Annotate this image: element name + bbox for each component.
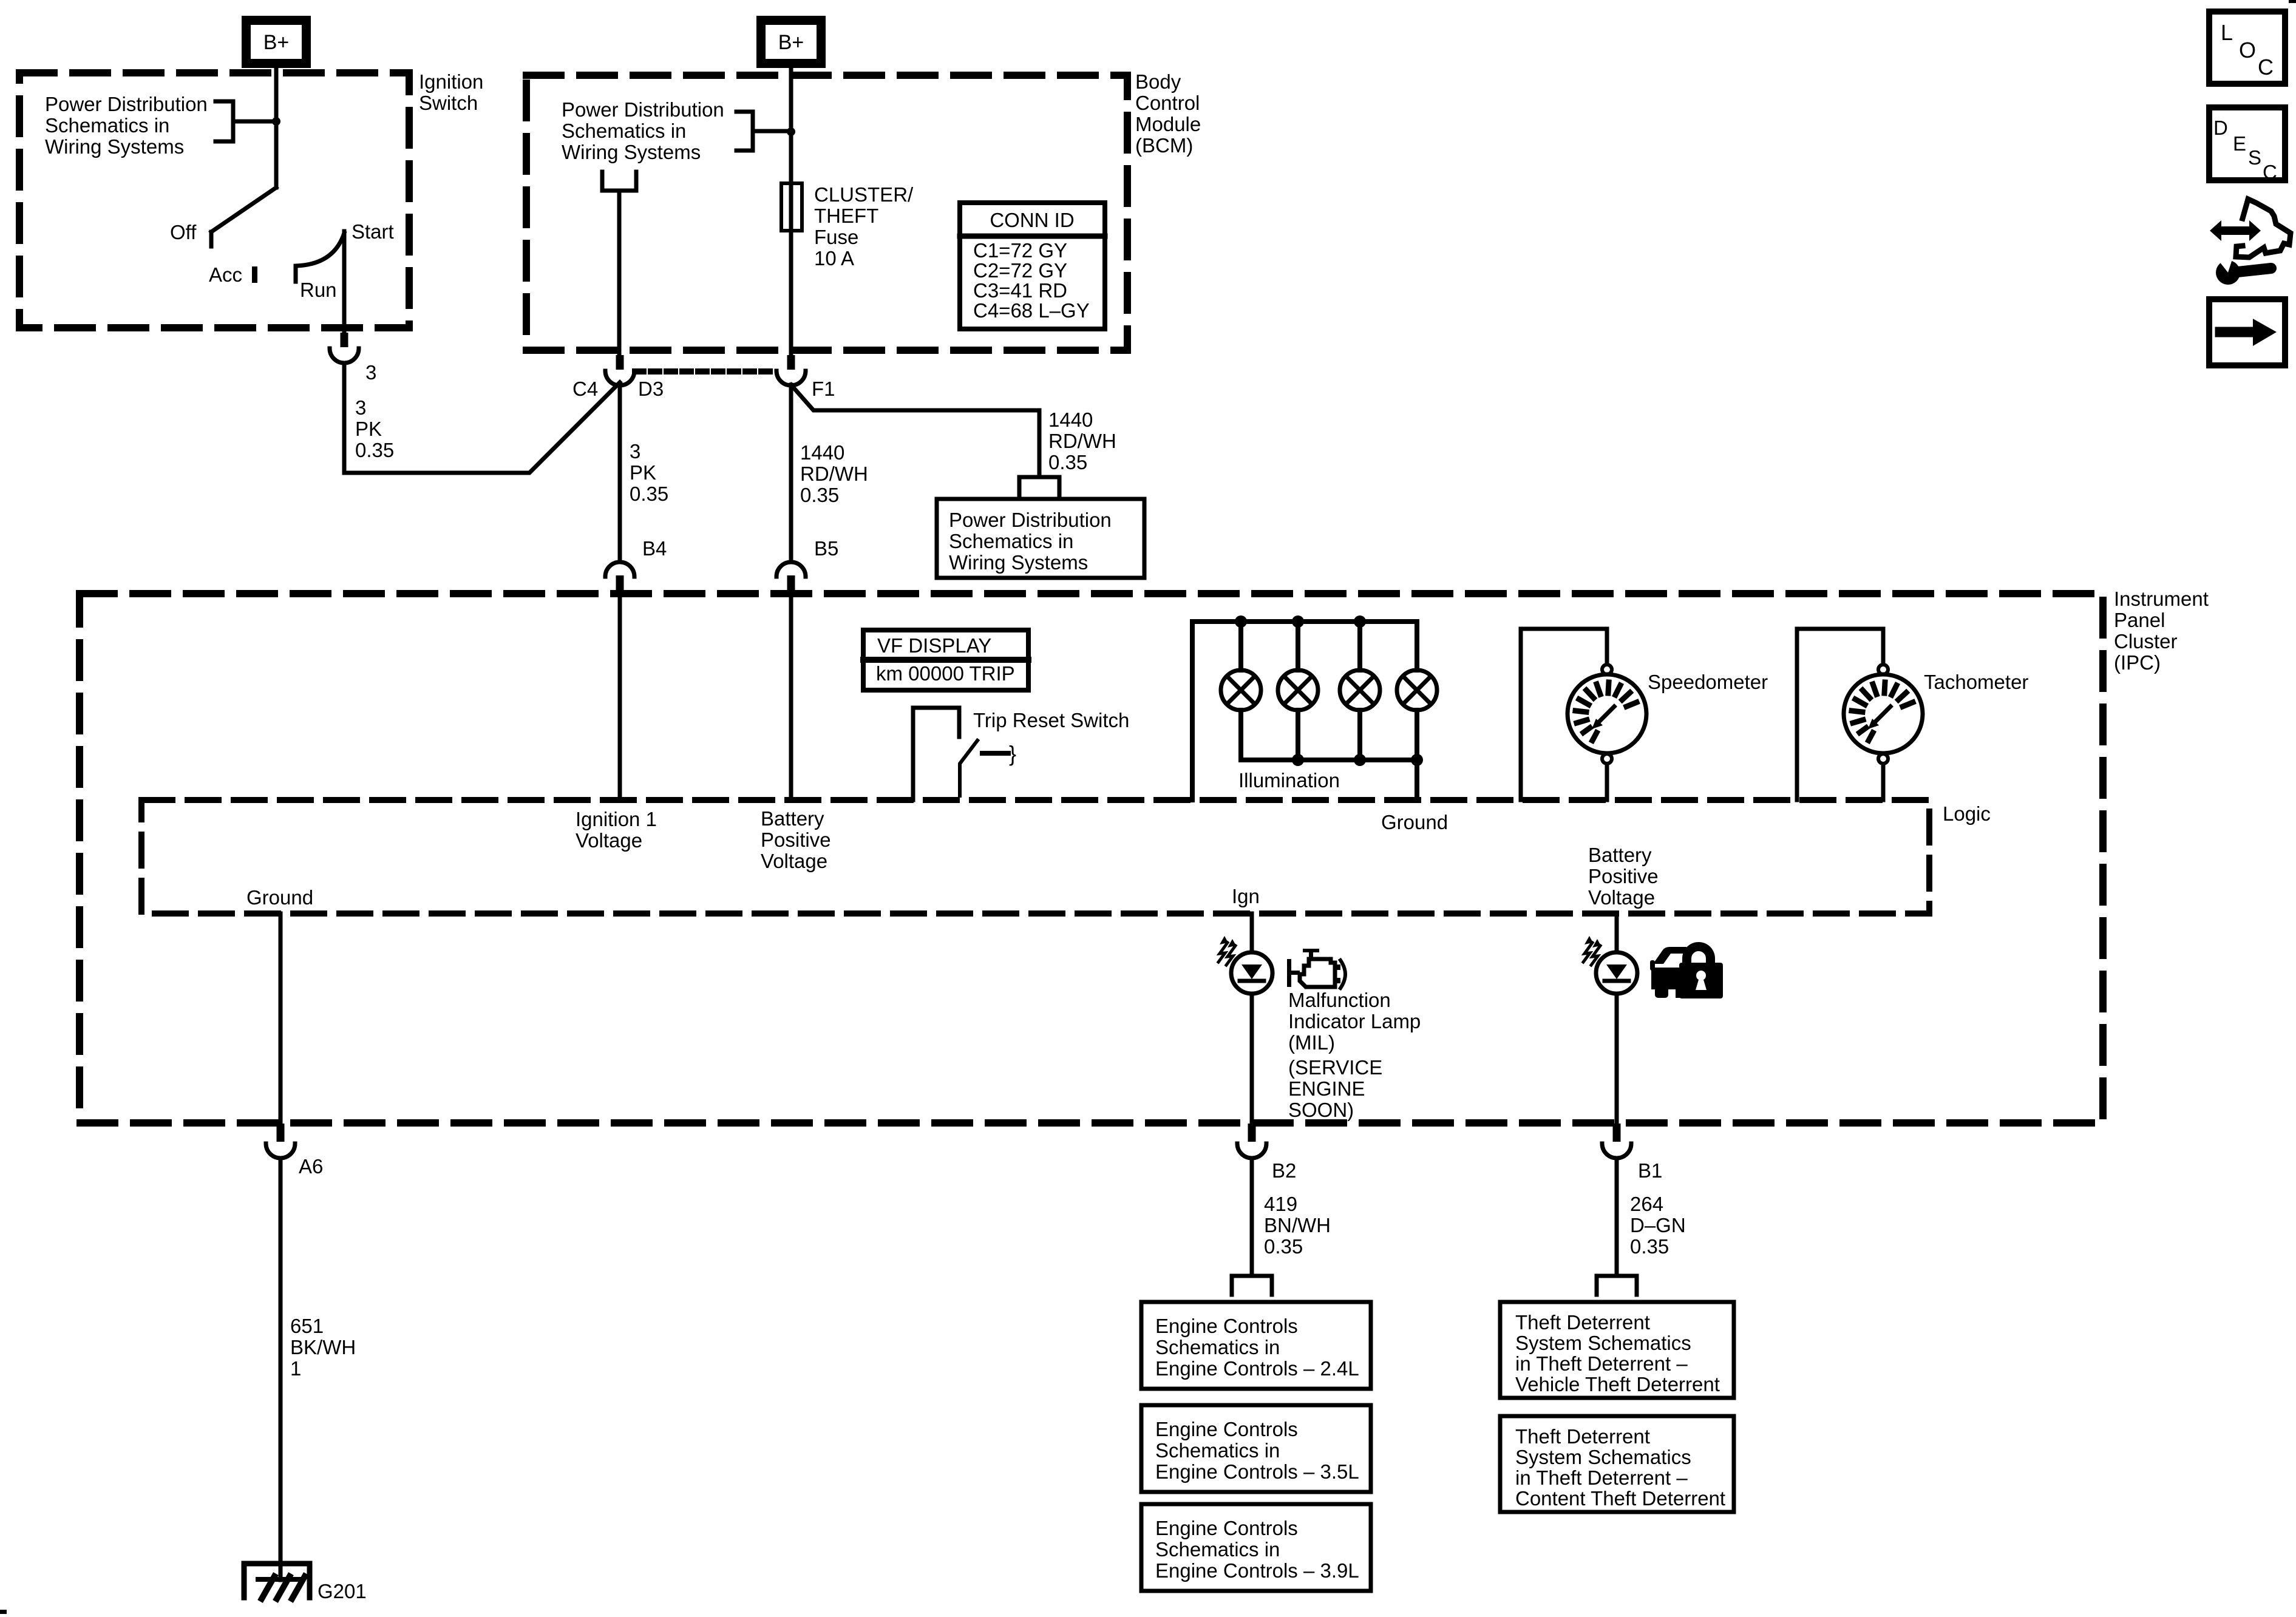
- IPC logic module dashed box: [141, 800, 1929, 914]
- wire B1 to theft deterrent: [1615, 1158, 1619, 1273]
- wire D3 down to B4: [618, 385, 622, 560]
- power symbol B+ (BCM feed): [761, 21, 821, 64]
- svg-text:VF DISPLAY: VF DISPLAY: [877, 634, 991, 657]
- wire B2 to engine controls: [1250, 1158, 1254, 1273]
- svg-text:km 00000 TRIP: km 00000 TRIP: [876, 662, 1015, 685]
- LED emission arrows: [1583, 936, 1601, 965]
- wire BCM power dist to D3: [617, 193, 622, 358]
- off-page cup bracket above power distribution box: [1019, 477, 1059, 496]
- connector pin 3 at ignition switch: [330, 333, 359, 363]
- body control module dashed box: [526, 75, 1127, 350]
- svg-text:Ign: Ign: [1232, 885, 1260, 907]
- box theft deterrent ref (Vehicle): [1500, 1302, 1734, 1398]
- wire illumination ground rail: [1241, 760, 1417, 800]
- node junction top rail: [1292, 615, 1304, 628]
- icon vehicle adjust (arrow + car + wrench): [2210, 199, 2291, 285]
- connector B2 at IPC: [1237, 1124, 1266, 1158]
- fuse CLUSTER/THEFT 10A: [781, 183, 802, 231]
- svg-text:C3=41 RD: C3=41 RD: [973, 279, 1067, 302]
- node junction ground rail: [1354, 754, 1366, 766]
- svg-text:Off: Off: [170, 221, 197, 243]
- lamp L1 (illumination bulb): [1221, 670, 1261, 710]
- wire bracket to BCM B+ wire: [753, 129, 787, 134]
- lamp L4 (illumination bulb): [1397, 670, 1437, 710]
- svg-text:Acc: Acc: [209, 263, 242, 286]
- box theft deterrent ref (Content): [1500, 1416, 1734, 1512]
- svg-text:L: L: [2221, 20, 2233, 45]
- wire F1 down to B5: [789, 385, 793, 560]
- svg-text:Run: Run: [300, 279, 337, 301]
- connector A6 at IPC: [266, 1124, 295, 1158]
- icon arrow box: [2209, 299, 2285, 365]
- speedometer gauge: [1521, 629, 1646, 800]
- svg-text:IgnitionSwitch: IgnitionSwitch: [419, 70, 483, 114]
- svg-text:Start: Start: [352, 220, 394, 243]
- svg-text:C4: C4: [572, 378, 598, 400]
- svg-text:3: 3: [365, 361, 376, 384]
- svg-text:D3: D3: [638, 378, 664, 400]
- wire B+ through fuse to F1: [789, 68, 793, 355]
- connector C4/D3 at BCM: [605, 355, 634, 385]
- svg-text:C: C: [2263, 161, 2277, 183]
- svg-text:CONN ID: CONN ID: [990, 209, 1074, 231]
- svg-text:F1: F1: [812, 378, 835, 400]
- tachometer gauge: [1797, 629, 1923, 800]
- svg-text:Trip Reset Switch: Trip Reset Switch: [973, 709, 1129, 731]
- connector B1 at IPC: [1602, 1124, 1631, 1158]
- svg-text:B1: B1: [1638, 1159, 1662, 1182]
- dotted connector face line D3-F1: [635, 368, 776, 375]
- power symbol B+ (ignition feed): [246, 21, 307, 64]
- wire B5 to logic module: [789, 594, 793, 800]
- svg-text:B+: B+: [778, 31, 804, 54]
- switch Run contact curve: [296, 233, 344, 282]
- wire F1 branch to power distribution: [791, 385, 1039, 475]
- svg-text:B2: B2: [1272, 1159, 1296, 1182]
- svg-text:B4: B4: [642, 537, 667, 560]
- box power distribution schematics ref: [937, 499, 1144, 578]
- node junction top rail: [1235, 615, 1247, 628]
- car with padlock icon (theft deterrent): [1650, 942, 1723, 998]
- VF DISPLAY readout box: [863, 630, 1028, 690]
- node junction on B+ stem: [272, 117, 280, 126]
- wire lamp 4 stem: [1415, 622, 1419, 670]
- wire bracket to B+ stem: [233, 120, 273, 124]
- box engine controls ref (2.4L): [1141, 1302, 1371, 1389]
- svg-text:B5: B5: [814, 537, 838, 560]
- svg-text:E: E: [2233, 132, 2246, 155]
- Acc contact tick: [252, 266, 257, 283]
- wire Start/Run to connector: [342, 231, 347, 337]
- wire B4 to logic module: [618, 594, 622, 800]
- instrument panel cluster dashed box: [80, 594, 2103, 1123]
- node junction ground rail: [1292, 754, 1304, 766]
- off-page cup bracket above theft deterrent: [1597, 1276, 1637, 1295]
- svg-text:C: C: [2258, 55, 2274, 80]
- svg-text:S: S: [2248, 146, 2261, 169]
- off-page bracket to power distribution: [216, 101, 233, 141]
- svg-text:Tachometer: Tachometer: [1924, 671, 2028, 693]
- wire lamp 2 stem: [1296, 622, 1300, 670]
- wire Ign to B2 (through MIL lamp): [1250, 914, 1254, 1124]
- off-page cup bracket to D3 feed: [602, 172, 636, 191]
- svg-text:Ground: Ground: [1381, 811, 1448, 833]
- svg-text:G201: G201: [318, 1580, 367, 1602]
- svg-text:Illumination: Illumination: [1238, 769, 1340, 792]
- svg-text:}: }: [1009, 741, 1016, 766]
- lamp MIL LED: [1231, 952, 1272, 994]
- wire Battery Positive Voltage to B1 (through theft lamp): [1615, 914, 1619, 1124]
- wire Ground to A6: [279, 914, 283, 1124]
- off-page bracket in BCM: [736, 112, 753, 151]
- svg-text:C2=72 GY: C2=72 GY: [973, 259, 1067, 282]
- box engine controls ref (3.5L): [1141, 1405, 1371, 1492]
- wire lamp 1 stem: [1238, 622, 1243, 670]
- wire B+ stem into ignition switch: [274, 68, 279, 188]
- connector B4 at IPC: [605, 562, 634, 594]
- svg-text:C1=72 GY: C1=72 GY: [973, 239, 1067, 262]
- LED emission arrows: [1218, 936, 1236, 965]
- ignition switch dashed box: [19, 73, 409, 328]
- lamp L3 (illumination bulb): [1340, 670, 1380, 710]
- CONN ID table: [960, 203, 1105, 329]
- svg-text:Ground: Ground: [246, 886, 313, 909]
- svg-text:Logic: Logic: [1943, 802, 1991, 825]
- corner tick marks: [2289, 0, 2296, 3]
- box engine controls ref (3.9L): [1141, 1504, 1371, 1591]
- svg-text:BatteryPositiveVoltage: BatteryPositiveVoltage: [1588, 844, 1659, 909]
- icon LOC box: [2209, 12, 2285, 84]
- wire illumination feed rail: [1192, 622, 1417, 800]
- node junction top rail: [1354, 615, 1366, 628]
- switch pole Off position: [211, 188, 276, 246]
- connector F1 at BCM: [776, 355, 806, 385]
- wire run feed to C4/D3: [344, 363, 620, 473]
- svg-text:BatteryPositiveVoltage: BatteryPositiveVoltage: [761, 807, 831, 872]
- svg-text:A6: A6: [299, 1155, 323, 1178]
- ground G201 symbol: [244, 1564, 310, 1599]
- wire lamp 3 stem: [1357, 622, 1362, 670]
- svg-text:O: O: [2239, 38, 2256, 63]
- connector B5 at IPC: [776, 562, 806, 594]
- node junction on BCM B+ wire: [787, 127, 795, 136]
- node junction ground rail: [1411, 754, 1423, 766]
- engine icon (check engine): [1287, 949, 1345, 988]
- svg-text:C4=68 L–GY: C4=68 L–GY: [973, 299, 1090, 322]
- svg-text:Speedometer: Speedometer: [1648, 671, 1768, 693]
- trip reset switch: [913, 708, 959, 800]
- lamp theft deterrent LED: [1596, 952, 1637, 994]
- svg-text:D: D: [2213, 117, 2228, 139]
- wire A6 to G201: [279, 1158, 283, 1580]
- off-page cup bracket above engine controls: [1232, 1276, 1272, 1295]
- lamp L2 (illumination bulb): [1278, 670, 1318, 710]
- icon DESC box: [2209, 107, 2285, 183]
- svg-text:B+: B+: [263, 31, 290, 54]
